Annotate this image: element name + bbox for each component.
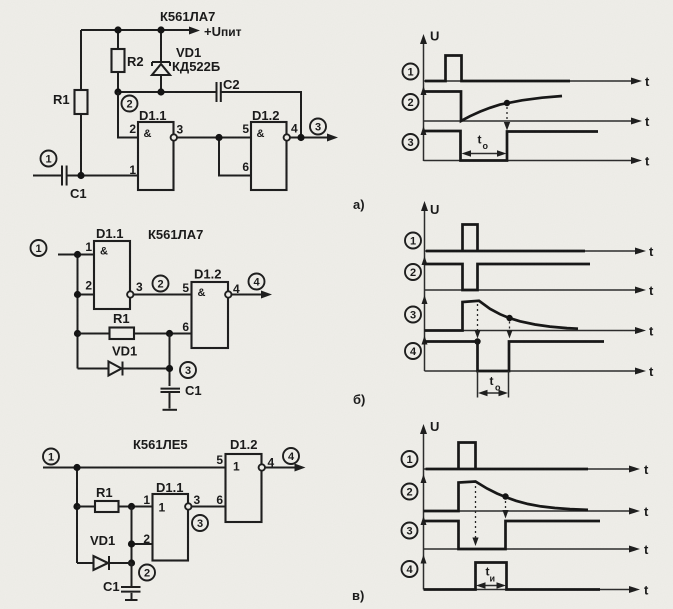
gate D1.2 (NAND) — [192, 282, 229, 348]
inverter bubble D1.1 — [127, 291, 133, 297]
node 2 badge — [139, 565, 155, 581]
node 1 badge — [31, 240, 47, 256]
axis up-arrow row3 — [422, 295, 428, 304]
t_o interval arrows — [462, 150, 507, 156]
junction dots left column — [74, 251, 81, 337]
node 1 badge — [41, 151, 57, 167]
t axis row 3 — [424, 542, 650, 557]
junction dot R1 rail — [128, 503, 135, 510]
wire cap column — [169, 334, 171, 387]
node 4 badge — [283, 448, 299, 464]
resistor R1 — [78, 328, 192, 340]
gate D1.1 (NAND) — [94, 241, 130, 309]
wire output with arrow — [290, 134, 338, 142]
signal 2 trace — [424, 92, 563, 122]
signal 1 trace — [426, 225, 585, 252]
wire to pin 6 of D1.2 — [219, 138, 251, 176]
label t_o — [478, 133, 489, 152]
node 2 badge — [122, 96, 138, 112]
wire D1.1 out to D1.2 pin 6 — [192, 506, 226, 508]
wire output with arrow — [265, 464, 306, 472]
signal 2 trace — [424, 482, 589, 512]
dotted pointer left — [472, 486, 478, 546]
wire input to D1.2 pin 5 — [43, 467, 226, 469]
signal 3 trace — [425, 301, 579, 331]
node 3 badge — [310, 119, 326, 135]
node 4 badge — [249, 274, 265, 290]
U axis — [421, 201, 439, 371]
signal 2 badge — [403, 94, 419, 110]
node 1 badge — [43, 449, 59, 465]
inverter bubble D1.1 — [171, 134, 177, 140]
dotted pointer right — [502, 501, 508, 519]
junction dots top rail and node-2 rail — [114, 26, 164, 95]
t axis row 4 — [425, 364, 655, 379]
dotted pointer — [504, 107, 510, 131]
diode VD1 — [152, 30, 170, 92]
axis up-arrow row2 — [421, 86, 427, 95]
signal 3 trace — [424, 521, 601, 549]
wire pin 2 — [78, 294, 95, 296]
wire D1.1 out to D1.2 pin5 — [177, 137, 251, 139]
junction dot input — [77, 172, 84, 179]
wire D1.1 out to D1.2 pin 5 — [134, 294, 192, 296]
wire C1 to pin 1 — [67, 175, 138, 177]
wire to pin 2 of D1.1 — [118, 92, 138, 138]
wire input — [58, 254, 94, 256]
axis up-arrow row3 — [421, 516, 427, 525]
signal 1 trace — [425, 56, 570, 82]
U axis — [420, 419, 439, 590]
t axis row 4 — [424, 583, 650, 598]
marker dot signal 4 — [474, 338, 480, 344]
axis up-arrow row3 — [421, 126, 427, 135]
marker dot signal 2 — [504, 100, 510, 106]
gate D1.1 (NOR) — [153, 494, 189, 561]
wire top supply rail — [81, 27, 200, 35]
gate D1.2 (NAND) — [251, 122, 287, 190]
diode VD1 — [77, 556, 132, 570]
signal 4 trace — [424, 563, 601, 590]
capacitor C1 — [62, 166, 67, 186]
wire node-2 rail — [118, 92, 301, 138]
signal 1 badge — [402, 451, 418, 467]
wire input branch down — [76, 468, 78, 564]
wire mid column — [131, 507, 133, 564]
ground — [125, 593, 138, 600]
inverter bubble D1.2 — [225, 291, 231, 297]
inverter bubble D1.2 — [259, 464, 265, 470]
marker dot signal 2 — [502, 493, 508, 499]
capacitor C1 — [161, 389, 181, 392]
t_o interval arrows — [478, 390, 508, 396]
node 3 badge — [180, 362, 196, 378]
resistor R1 — [77, 501, 153, 512]
t axis row 2 — [424, 504, 650, 519]
U axis — [420, 29, 439, 162]
signal 1 badge — [405, 233, 421, 249]
diode VD1 — [78, 362, 170, 376]
wire pin 2 — [132, 543, 153, 545]
inverter bubble D1.1 — [185, 503, 191, 509]
signal 4 badge — [402, 561, 418, 577]
marker dot signal 3 — [506, 315, 512, 321]
junction dot diode node — [166, 365, 173, 372]
signal 3 badge — [402, 523, 418, 539]
signal 3 trace — [424, 131, 599, 161]
signal 3 badge — [405, 307, 421, 323]
junction dots input column — [73, 464, 80, 510]
node 2 badge — [153, 276, 169, 292]
t axis row 3 — [425, 324, 655, 339]
t axis row 2 — [425, 283, 655, 298]
junction dot gate link — [215, 134, 222, 141]
t_o extension lines — [478, 371, 509, 398]
signal 2 trace — [425, 264, 591, 290]
op-amp gate D1.1 (NAND) — [138, 122, 174, 190]
label t_o — [490, 374, 502, 393]
t_i interval arrows — [476, 582, 506, 588]
signal 3 badge — [403, 134, 419, 150]
t axis row 1 — [424, 74, 651, 89]
ground — [163, 393, 178, 410]
resistor R1 — [75, 30, 88, 176]
gate D1.2 (NOR) — [226, 454, 262, 522]
wire output with arrow — [232, 291, 273, 299]
node 3 badge — [192, 515, 208, 531]
dotted pointer right — [506, 322, 512, 339]
wire input branch down — [77, 255, 79, 369]
junction dot output — [297, 134, 304, 141]
signal 2 badge — [405, 264, 421, 280]
signal 1 badge — [403, 64, 419, 80]
junction dot R1 rail — [166, 330, 173, 337]
dotted pointer left — [474, 304, 480, 339]
t axis row 1 — [424, 462, 650, 477]
junction dots mid column — [128, 540, 135, 566]
t axis row 3 — [424, 154, 651, 169]
axis up-arrow row2 — [421, 474, 427, 483]
t axis row 2 — [424, 114, 651, 129]
axis up-arrow row4 — [421, 555, 427, 564]
signal 4 trace — [425, 342, 605, 372]
signal 2 badge — [402, 484, 418, 500]
t axis row 1 — [425, 244, 655, 259]
capacitor C2 — [217, 82, 221, 102]
capacitor C1 — [121, 563, 141, 592]
signal 4 badge — [405, 343, 421, 359]
wire input lead — [33, 175, 61, 177]
inverter bubble D1.2 — [284, 134, 290, 140]
signal 1 trace — [426, 443, 589, 470]
axis up-arrow row4 — [422, 336, 428, 345]
label t_i — [486, 565, 496, 584]
axis up-arrow row2 — [422, 256, 428, 265]
resistor R2 — [112, 30, 125, 92]
